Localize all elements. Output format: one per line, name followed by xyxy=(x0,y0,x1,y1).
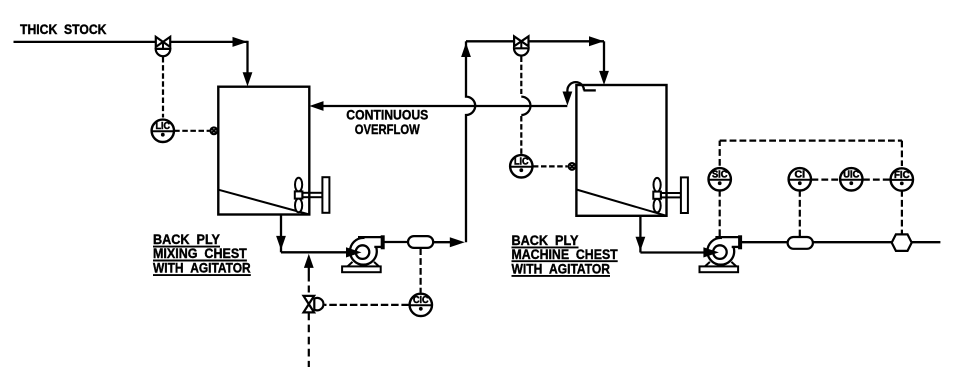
instrument SIC xyxy=(709,168,731,190)
arrow up into suction line xyxy=(304,254,314,268)
agitator A1 in mixing chest xyxy=(295,177,330,213)
control valve CV2 on machine chest feed xyxy=(514,36,529,55)
svg-text:CIC: CIC xyxy=(413,295,429,306)
svg-text:UIC: UIC xyxy=(843,170,859,181)
wire: drop into machine chest xyxy=(603,41,605,74)
label tank T1 xyxy=(153,232,251,276)
wire: continuous overflow line xyxy=(322,105,567,107)
arrow right into riser xyxy=(450,237,465,247)
instrument UIC xyxy=(840,168,862,190)
signal wire: LIC1 to tank wall xyxy=(174,130,210,132)
pump P2 xyxy=(700,235,743,272)
instrument LIC1 xyxy=(152,120,174,142)
svg-text:MIXING CHEST: MIXING CHEST xyxy=(153,246,248,261)
tank T1: back ply mixing chest xyxy=(218,87,309,215)
arrow down from hook to overflow line xyxy=(563,92,573,106)
agitator A2 in machine chest xyxy=(653,177,688,213)
signal wire: SIC down to pump P2 xyxy=(719,190,721,236)
svg-text:WITH AGITATOR: WITH AGITATOR xyxy=(153,261,251,276)
wall connection x-circle 2 xyxy=(569,163,576,170)
signal wire: UIC to FIC xyxy=(863,179,890,181)
signal wire: LIC2 to tank wall xyxy=(533,165,568,167)
svg-text:CONTINUOUS: CONTINUOUS xyxy=(346,108,428,123)
wire: to riser xyxy=(433,241,452,243)
wire: pump P1 suction line xyxy=(281,251,349,253)
signal wire: CV3 up to suction line xyxy=(308,266,310,293)
signal wire: CIC to dilution valve CV3 xyxy=(325,304,409,306)
inline element FE1 (capsule) xyxy=(408,236,433,248)
svg-text:LIC: LIC xyxy=(514,157,529,168)
signal wire: CV2 to LIC2 (with hop over overflow) xyxy=(521,57,530,155)
signal wire: SIC over to FIC (top run) xyxy=(720,141,902,166)
svg-text:FIC: FIC xyxy=(894,170,910,181)
control valve CV3 (vertical, dilution water) xyxy=(304,296,324,313)
label CONTINUOUS OVERFLOW xyxy=(346,108,428,137)
arrow up at riser top xyxy=(461,43,471,57)
wire: drop into mixing chest xyxy=(246,41,248,76)
svg-text:WITH AGITATOR: WITH AGITATOR xyxy=(512,262,611,277)
inline element FE2 (capsule) xyxy=(788,237,813,249)
arrow down on outlet 2 xyxy=(636,237,646,251)
overflow pickup hook on machine chest xyxy=(567,82,595,93)
wire: machine chest feed line xyxy=(466,40,604,42)
svg-text:OVERFLOW: OVERFLOW xyxy=(355,122,420,137)
pump P1 xyxy=(342,235,385,272)
wire: P1 discharge to consistency element xyxy=(384,241,409,243)
wire: thick stock feed line xyxy=(14,41,248,43)
tank T2: back ply machine chest xyxy=(576,85,666,216)
wall connection x-circle 1 xyxy=(211,127,218,134)
instrument FIC xyxy=(891,168,913,190)
signal wire: CV1 to LIC1 xyxy=(162,57,164,118)
wire: dilution water supply (dashed, from below) xyxy=(308,313,310,368)
svg-text:BACK PLY: BACK PLY xyxy=(512,233,579,248)
svg-text:THICK STOCK: THICK STOCK xyxy=(20,22,107,37)
instrument CI xyxy=(789,168,811,190)
svg-text:LIC: LIC xyxy=(156,121,171,132)
arrow down on outlet xyxy=(276,236,286,250)
wire: mixing chest outlet drop xyxy=(280,215,282,253)
arrow right on feed line xyxy=(233,37,248,47)
instrument CIC xyxy=(410,294,432,316)
svg-text:BACK PLY: BACK PLY xyxy=(153,232,220,247)
wire: between FE2 and flow element xyxy=(813,241,892,243)
wire: discharge line end xyxy=(912,241,941,243)
signal wire: CI down to FE2 xyxy=(799,190,801,236)
arrow down into machine chest xyxy=(599,71,609,85)
wire: riser to machine chest feed (with hop over overflow) xyxy=(466,41,475,242)
wire: machine chest outlet drop xyxy=(639,216,641,253)
arrow down into mixing chest xyxy=(243,72,253,86)
control valve CV1 on thick stock line xyxy=(156,37,171,56)
arrow right on feed line 2 xyxy=(589,36,604,46)
flow element FE3 (hexagon) xyxy=(892,234,912,251)
svg-text:SIC: SIC xyxy=(712,170,728,181)
signal wire: FE1 down to CIC xyxy=(420,248,422,292)
wire: P2 discharge line xyxy=(741,241,788,243)
instrument LIC2 xyxy=(510,155,532,177)
signal wire: CI to UIC xyxy=(812,179,840,181)
svg-text:CI: CI xyxy=(795,170,806,181)
label THICK STOCK xyxy=(20,22,107,37)
arrow left into mixing chest xyxy=(309,101,323,111)
signal wire: FIC down to FE3 xyxy=(901,190,903,234)
label tank T2 xyxy=(512,233,619,277)
svg-text:MACHINE CHEST: MACHINE CHEST xyxy=(512,247,619,262)
wire: pump P2 suction line xyxy=(640,251,706,253)
